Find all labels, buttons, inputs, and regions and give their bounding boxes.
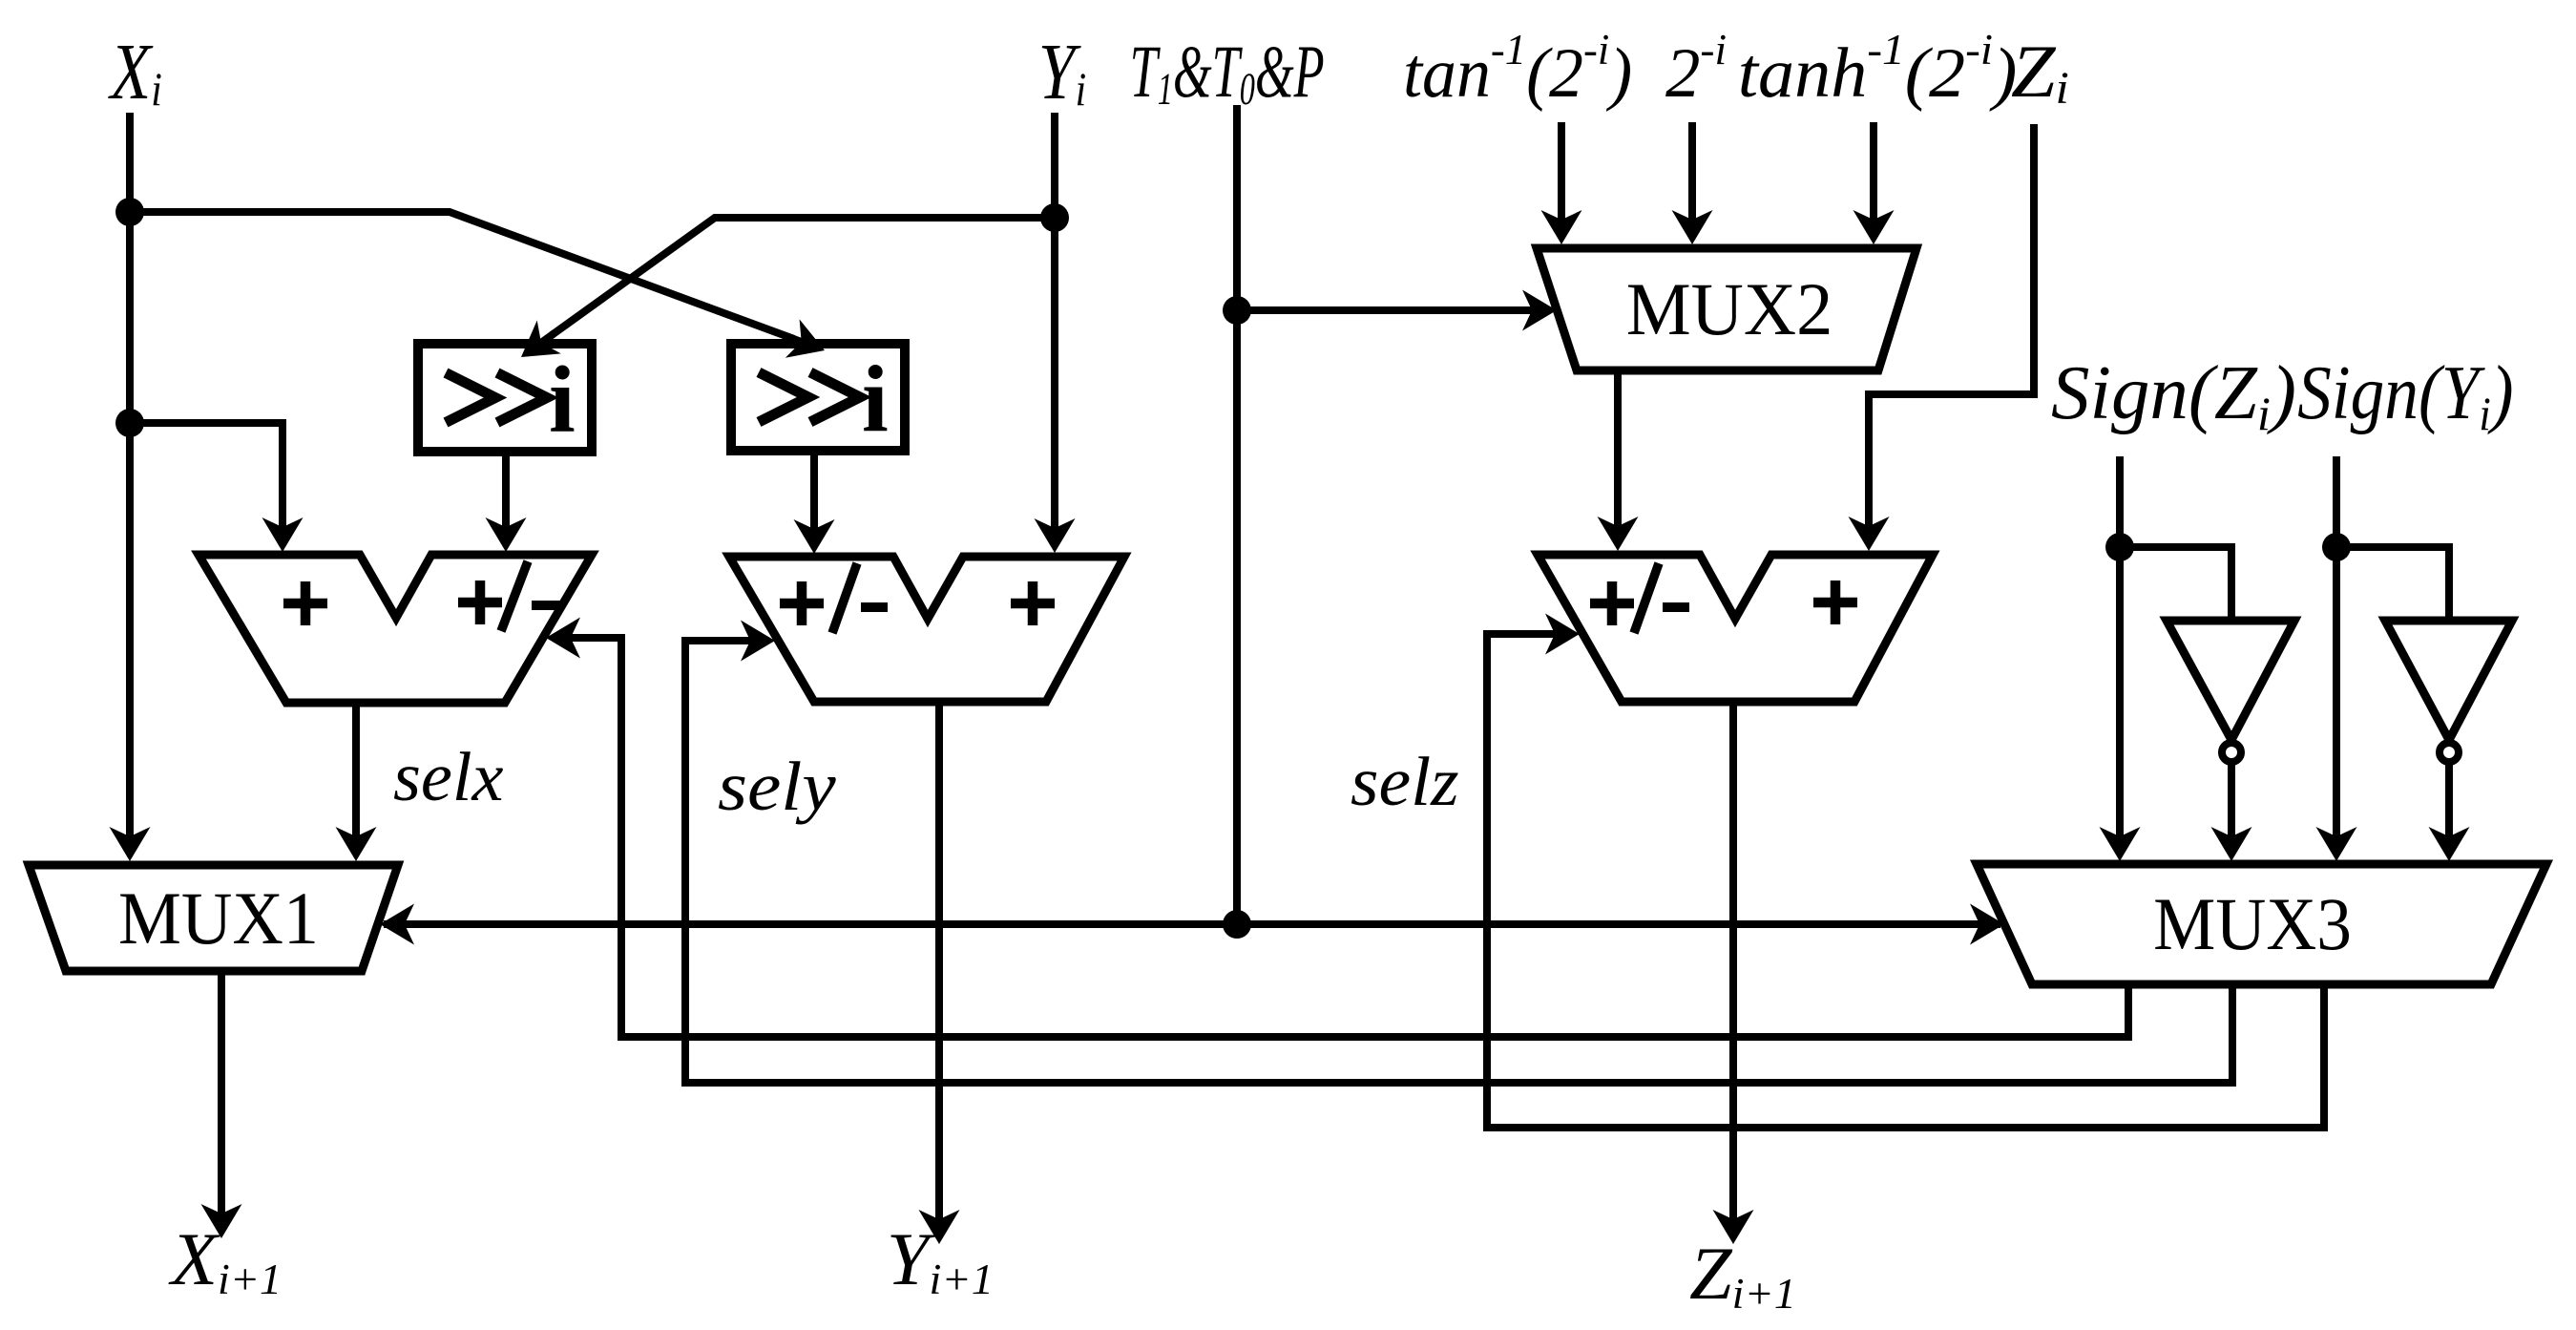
label X_i [108, 27, 162, 116]
label sely [718, 748, 836, 825]
svg-text:MUX2: MUX2 [1626, 267, 1833, 350]
label 2^-i [1665, 25, 1727, 112]
wire INV1 output [2228, 764, 2235, 827]
wire tanh constant arrow [1870, 122, 1877, 210]
wire Sign(Z_i) to inverter INV1 [2120, 547, 2231, 619]
wire A2 output Y_i+1 [935, 702, 943, 1207]
label X_i+1 [168, 1219, 282, 1303]
wire selx A1 output to MUX1 [352, 703, 360, 825]
arrowhead selx into MUX1 [352, 821, 360, 853]
label Z_i [2011, 31, 2069, 114]
adder A3 (Z path) [1538, 555, 1933, 702]
label A3 plus/minus [1590, 581, 1634, 625]
svg-text:i: i [862, 346, 889, 452]
label Sign(Y_i) [2297, 350, 2513, 440]
svg-text:selx: selx [393, 738, 504, 815]
arrowhead into A1 plus [279, 512, 286, 543]
label tan^-1(2^-i) [1403, 25, 1632, 112]
arrowhead INV2 into MUX3 [2445, 821, 2453, 853]
junction T on select bus [1223, 910, 1251, 939]
shifter S1 box >>i [418, 344, 592, 453]
label Y_i [1038, 27, 1086, 116]
wire X_i vertical [126, 113, 134, 829]
MUX2 trapezoid [1537, 248, 1916, 370]
wire Sign(Z_i) vertical [2116, 456, 2124, 827]
svg-text:MUX3: MUX3 [2153, 884, 2352, 966]
label Sign(Z_i) [2051, 350, 2296, 440]
arrowhead tan into MUX2 [1558, 204, 1565, 236]
junction X_i lower [115, 409, 144, 437]
wire INV2 output [2445, 764, 2453, 827]
label T1&T0&P [1130, 32, 1325, 115]
arrowhead S2 out into A2 [810, 514, 818, 545]
wire S1 output [502, 452, 510, 517]
feedback wire MUX3 to A3 +/- input [1487, 634, 2324, 1128]
wire A3 output Z_i+1 [1729, 702, 1737, 1207]
label A1 plus/minus [458, 581, 502, 624]
wire X_i to shifter S2 (cross diagonal) [130, 212, 794, 339]
arrowhead S1 out into A1 [502, 512, 510, 543]
arrowhead into S1 [528, 334, 554, 352]
arrowhead feedback into A3 [1539, 630, 1571, 638]
arrowhead MUX2 out into A3 [1614, 511, 1622, 542]
wire Sign(Y_i) to inverter INV2 [2336, 547, 2449, 619]
junction T upper [1223, 296, 1251, 325]
label selz [1351, 744, 1459, 820]
arrowhead Y_i into A2 [1051, 513, 1058, 544]
label MUX3 [2153, 884, 2352, 966]
label A3 plus [1813, 581, 1857, 624]
wire tan constant arrow [1558, 122, 1565, 210]
inverter INV2 bubble [2440, 743, 2459, 762]
arrowhead select into MUX3 [1964, 920, 1996, 928]
label A1 plus [283, 581, 327, 625]
feedback wire MUX3 to A1 +/- input [582, 638, 2128, 1037]
wire X_i to adder A1 + input [130, 423, 283, 516]
wire MUX2 output to A3 [1614, 370, 1622, 515]
wire T to MUX2 select [1237, 306, 1521, 314]
arrowhead into S2 [787, 337, 817, 348]
label tanh^-1(2^-i) [1738, 26, 2018, 113]
inverter INV2 triangle [2385, 621, 2512, 740]
arrowhead feedback into A2 [735, 637, 766, 644]
arrowhead Y_i+1 [935, 1204, 943, 1235]
arrowhead Z_i into A3 [1865, 511, 1873, 542]
label MUX2 [1626, 267, 1833, 350]
wire 2^-i constant arrow [1688, 122, 1696, 210]
adder A2 (Y path) [729, 557, 1124, 702]
svg-text:selz: selz [1351, 744, 1459, 820]
junction Sign(Y_i) [2322, 533, 2351, 561]
inverter INV1 bubble [2222, 743, 2241, 762]
arrowhead 2^-i into MUX2 [1688, 204, 1696, 236]
arrowhead Sign(Y_i) into MUX3 [2333, 821, 2340, 853]
wire MUX1 output [218, 971, 225, 1202]
junction X_i upper [115, 198, 144, 226]
MUX1 trapezoid [29, 865, 398, 971]
wire select bus to MUX1 and MUX3 [384, 920, 2000, 928]
label A2 plus [1011, 581, 1055, 625]
wire S2 output [810, 451, 818, 518]
label selx [393, 738, 504, 815]
label A2 plus/minus [780, 581, 824, 625]
svg-text:MUX1: MUX1 [118, 877, 319, 960]
wire Y_i vertical [1051, 113, 1058, 517]
MUX3 trapezoid [1977, 864, 2546, 984]
feedback wire MUX3 to A2 +/- input [685, 641, 2232, 1083]
svg-text:i: i [549, 347, 576, 453]
arrowhead select into MUX1 [388, 920, 420, 928]
arrowhead Sign(Z_i) into MUX3 [2116, 821, 2124, 853]
arrowhead tanh into MUX2 [1870, 204, 1877, 236]
arrowhead X_i+1 [218, 1198, 225, 1230]
shifter S2 box >>i [731, 344, 905, 452]
label Z_i+1 [1689, 1233, 1796, 1318]
wire Sign(Y_i) vertical [2333, 456, 2340, 827]
junction Y_i [1040, 203, 1069, 232]
wire T select vertical [1233, 105, 1241, 924]
wire Z_i input path [1869, 124, 2034, 515]
inverter INV1 triangle [2167, 621, 2294, 740]
arrowhead into MUX2 left [1517, 306, 1548, 314]
svg-text:sely: sely [718, 748, 836, 825]
wire Y_i to shifter S1 (cross diagonal) [552, 218, 1055, 335]
arrowhead X_i into MUX1 [126, 821, 134, 853]
junction Sign(Z_i) [2105, 533, 2134, 561]
arrowhead Z_i+1 [1729, 1204, 1737, 1235]
arrowhead INV1 into MUX3 [2228, 821, 2235, 853]
adder A1 (X path) [199, 555, 592, 703]
arrowhead feedback into A1 [555, 634, 586, 642]
label Y_i+1 [887, 1218, 994, 1303]
label MUX1 [118, 877, 319, 960]
